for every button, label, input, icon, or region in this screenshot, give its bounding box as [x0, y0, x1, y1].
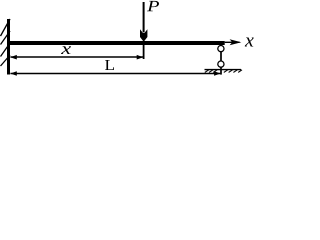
- ground hatching: [205, 70, 242, 73]
- x dim right arrowhead: [137, 55, 144, 60]
- label x (axis): [245, 38, 254, 47]
- L dim left arrowhead: [10, 71, 16, 75]
- label P: [147, 1, 159, 11]
- wall bar: [7, 19, 10, 75]
- extension line at load: [143, 45, 145, 59]
- roller lower circle: [218, 61, 224, 67]
- x axis arrow: [225, 41, 240, 43]
- load arrowhead: [140, 29, 147, 42]
- L dim line: [10, 73, 220, 75]
- label x (dimension): [61, 46, 71, 54]
- ground line: [205, 69, 242, 71]
- load arrow shaft: [143, 2, 145, 32]
- roller upper circle: [218, 46, 224, 52]
- x dim left arrowhead: [10, 55, 16, 60]
- x dim line: [10, 56, 143, 58]
- label L: [105, 60, 114, 70]
- wall hatching: [1, 19, 11, 66]
- roller stem below: [220, 67, 222, 74]
- L dim right arrowhead: [214, 71, 221, 75]
- x axis arrowhead: [230, 39, 242, 45]
- roller link: [220, 52, 222, 61]
- beam: [7, 41, 225, 45]
